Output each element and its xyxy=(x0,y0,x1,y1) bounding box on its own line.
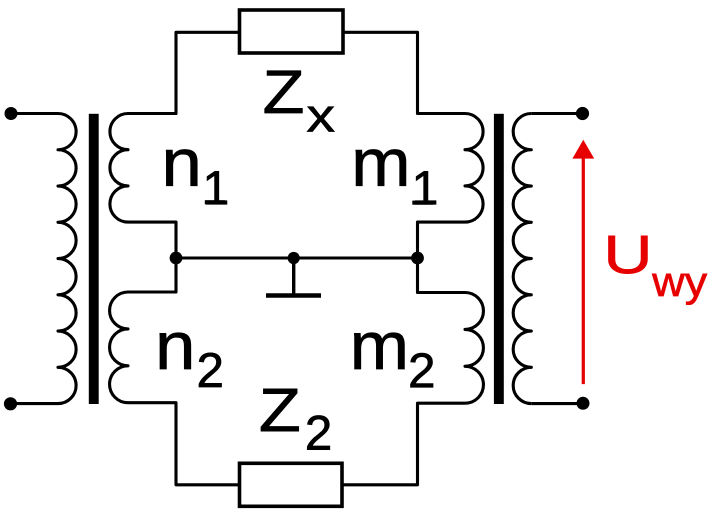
winding: transformer T2 secondary (8 loops) xyxy=(513,114,531,404)
impedance Z2 (box) xyxy=(240,463,343,506)
label Zx x sub xyxy=(307,107,334,132)
label n1 1 sub xyxy=(206,171,227,204)
wire: node B down to winding m2 xyxy=(418,258,466,293)
wire: top-left terminal lead xyxy=(11,112,58,115)
winding n1 (3 loops) xyxy=(110,114,128,223)
label Zx Z xyxy=(265,71,303,113)
ground bar xyxy=(266,293,321,298)
wire: middle bus node A to node B xyxy=(176,256,418,259)
label n1 foot serif of subscript 1 xyxy=(205,200,225,204)
wire: node A down to winding n2 xyxy=(128,258,176,292)
wire: winding m2 down to impedance Z2 right lead xyxy=(342,403,465,485)
label n2 2 sub xyxy=(199,353,222,387)
winding m2 (3 loops) xyxy=(465,293,483,404)
arrow Uwy head (red) xyxy=(572,140,594,159)
wire: impedance Zx right lead down to winding m1 xyxy=(343,32,465,113)
label m2 m xyxy=(354,333,404,369)
terminal dot: output right top xyxy=(576,107,589,120)
core: transformer T2 core bar xyxy=(494,114,504,404)
wire: winding m1 to node B xyxy=(418,222,466,258)
junction node at ground dot xyxy=(288,252,300,264)
label Uwy wy sub xyxy=(652,274,707,305)
wire: winding n2 down to impedance Z2 left lead xyxy=(128,403,240,485)
winding m1 (3 loops) xyxy=(465,114,483,223)
terminal dot: output right bottom xyxy=(577,397,590,410)
label n1 n xyxy=(166,150,197,186)
terminal dot: input left bottom xyxy=(4,397,17,410)
label n2 n xyxy=(160,333,191,369)
winding n2 (3 loops) xyxy=(110,292,128,403)
wire: secondary to bottom-right terminal xyxy=(531,402,583,405)
label Z2 Z xyxy=(261,389,299,431)
label m1 foot serif of subscript 1 xyxy=(412,201,433,205)
ground stub wire xyxy=(292,258,295,294)
label Uwy U xyxy=(609,236,648,274)
label m1 1 sub xyxy=(415,171,436,204)
wire: top-right terminal lead xyxy=(531,112,583,115)
label Z2 2 sub xyxy=(307,416,330,450)
arrow Uwy shaft (red) xyxy=(582,155,585,384)
junction node B dot xyxy=(411,252,424,265)
label m1 m xyxy=(356,150,406,186)
winding: transformer T1 primary (8 loops) xyxy=(58,114,76,404)
terminal dot: input left top xyxy=(5,107,18,120)
impedance Zx (box) xyxy=(240,10,344,53)
label m2 2 sub xyxy=(411,353,434,387)
junction node A dot xyxy=(170,252,183,265)
wire: primary to bottom-left terminal xyxy=(11,402,58,405)
wire: impedance Zx left lead down to winding n1 xyxy=(128,32,240,113)
wire: winding n1 to node A xyxy=(128,222,176,258)
core: transformer T1 core bar xyxy=(89,114,99,404)
